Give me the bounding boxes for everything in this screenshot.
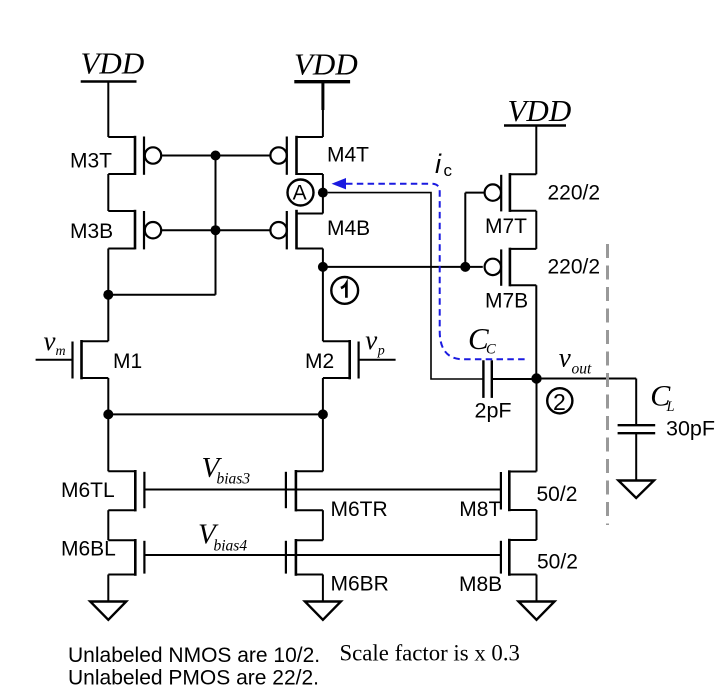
junction gates bottom [211, 225, 221, 235]
VDD label left [81, 46, 145, 81]
note text line 2 [68, 667, 319, 690]
transistor M7T [465, 173, 536, 212]
svg-text:M4B: M4B [327, 217, 370, 240]
wire M6BR to ground [322, 575, 324, 602]
label 50/2 top [537, 483, 578, 506]
wire tail to M6TR [322, 414, 324, 471]
svg-text:v: v [559, 342, 571, 372]
wire VDD to M3T source [107, 82, 109, 138]
capacitor CC [483, 360, 536, 398]
junction node A [318, 188, 328, 198]
svg-text:M2: M2 [305, 350, 334, 373]
transistor M6TR [286, 470, 323, 511]
VDD rail middle [294, 80, 350, 83]
svg-text:M6BR: M6BR [331, 573, 389, 596]
ic current dashed path [346, 184, 529, 360]
svg-text:C: C [486, 342, 496, 358]
wire gate bias vertical [215, 156, 217, 295]
svg-text:m: m [56, 344, 66, 359]
ground CL [618, 481, 654, 499]
wire M6BL to ground [107, 575, 109, 602]
label ic [435, 149, 453, 180]
svg-text:v: v [365, 325, 377, 355]
VDD rail left [81, 80, 137, 82]
wire vout down to M8T [536, 379, 538, 472]
svg-text:220/2: 220/2 [548, 256, 601, 279]
note text line 1 [68, 644, 320, 667]
wire M6TR to M6BR [322, 510, 324, 540]
label Vbias3 [202, 452, 251, 487]
junction node 1 [318, 262, 328, 272]
note scale factor [340, 641, 520, 666]
VDD rail right [504, 124, 566, 126]
wire mirror node to gate bias line [108, 294, 215, 296]
wire M6TL to M6BL [107, 510, 109, 540]
label 30pF [666, 417, 715, 441]
node 2 bubble label [547, 388, 572, 415]
VDD label middle [294, 46, 358, 81]
svg-text:M6BL: M6BL [61, 538, 116, 561]
svg-text:c: c [444, 161, 453, 180]
wire node 1 down to M2 drain [322, 267, 324, 341]
svg-text:M3B: M3B [70, 220, 113, 243]
svg-text:VDD: VDD [508, 93, 572, 128]
svg-text:bias4: bias4 [214, 538, 248, 555]
svg-text:Unlabeled PMOS are 22/2.: Unlabeled PMOS are 22/2. [68, 667, 319, 690]
transistor M3T [108, 136, 215, 175]
svg-text:50/2: 50/2 [537, 483, 578, 506]
junction mirror node [103, 290, 113, 300]
svg-text:M4T: M4T [327, 144, 369, 167]
transistor M2 [323, 340, 396, 379]
input v_p [365, 325, 385, 358]
junction vout [531, 373, 541, 383]
ground right [519, 602, 555, 620]
svg-text:bias3: bias3 [217, 470, 251, 487]
wire M1 drain up [107, 295, 109, 342]
wire VDD to M7T [535, 126, 537, 175]
transistor M6BL [108, 539, 144, 576]
ground middle [305, 602, 341, 620]
label 2pF [475, 399, 512, 423]
wire M7T gate down to node 1 line [464, 193, 466, 267]
wire tail [108, 413, 323, 415]
svg-text:VDD: VDD [294, 46, 358, 81]
svg-text:2pF: 2pF [475, 399, 512, 423]
junction tail right [318, 409, 328, 419]
VDD label right [508, 93, 572, 128]
junction M7T gate branch [460, 262, 470, 272]
transistor M7B [485, 248, 537, 287]
svg-text:A: A [293, 182, 307, 205]
transistor M8B [501, 539, 537, 576]
svg-text:v: v [44, 326, 56, 356]
node 1 bubble label [331, 277, 358, 304]
transistor M8T [501, 470, 537, 511]
input v_m [44, 326, 66, 359]
wire M7B drain to vout [535, 285, 537, 378]
svg-text:p: p [377, 343, 385, 358]
junction tail left [103, 409, 113, 419]
transistor M6BR [286, 539, 323, 576]
wire M8T to M8B [536, 510, 538, 540]
svg-text:M7T: M7T [485, 215, 527, 238]
wire M4B drain to node 1 [322, 249, 324, 267]
transistor M4B [216, 210, 323, 250]
label CC [468, 321, 496, 358]
ic arrow head [332, 178, 347, 189]
svg-text:i: i [435, 149, 442, 179]
wire vout to CL [537, 378, 637, 380]
transistor M3B [108, 210, 215, 250]
wire M8B to ground [536, 575, 538, 602]
svg-text:M3T: M3T [70, 150, 112, 173]
svg-text:M6TR: M6TR [331, 498, 388, 521]
svg-text:50/2: 50/2 [537, 550, 578, 573]
wire M7T drain to M7B source [535, 211, 537, 249]
svg-text:M1: M1 [113, 350, 142, 373]
wire tail to M6TL [107, 414, 109, 471]
wire M3T drain to M3B source [107, 174, 109, 211]
ground left [90, 602, 126, 620]
wire node 1 to M7B gate [323, 266, 483, 268]
svg-text:L: L [666, 399, 675, 415]
svg-text:220/2: 220/2 [548, 181, 601, 204]
label 220/2 bottom [548, 256, 601, 279]
wire node A to compensation cap [328, 193, 484, 379]
bias line Vbias3 [144, 489, 501, 491]
bias line Vbias4 [144, 554, 501, 556]
wire M4T drain through node A [322, 174, 324, 214]
wire VDD stub to M4T [321, 82, 324, 110]
svg-text:M7B: M7B [485, 290, 528, 313]
svg-text:2: 2 [553, 389, 566, 415]
svg-text:M6TL: M6TL [61, 479, 115, 502]
svg-text:M8T: M8T [459, 498, 501, 521]
label Vbias4 [198, 518, 247, 554]
transistor M6TL [108, 470, 144, 511]
wire M2 source down [322, 378, 324, 414]
svg-text:30pF: 30pF [666, 417, 715, 441]
transistor M1 [36, 340, 109, 379]
capacitor CL [618, 379, 656, 481]
node A bubble label [288, 180, 314, 206]
label 220/2 top [548, 181, 601, 204]
dashed boundary line [606, 244, 609, 525]
wire M1 source down [107, 378, 109, 414]
svg-text:M8B: M8B [459, 573, 502, 596]
svg-text:VDD: VDD [81, 46, 145, 81]
wire M3B drain down to mirror node [107, 249, 109, 295]
label CL [650, 380, 674, 416]
svg-text:Scale factor is x 0.3: Scale factor is x 0.3 [340, 641, 520, 666]
svg-text:Unlabeled NMOS are 10/2.: Unlabeled NMOS are 10/2. [68, 644, 320, 667]
junction gates top [211, 151, 221, 161]
label vout [559, 342, 592, 377]
transistor M4T [216, 136, 323, 175]
svg-text:out: out [572, 361, 593, 378]
label 50/2 bottom [537, 550, 578, 573]
